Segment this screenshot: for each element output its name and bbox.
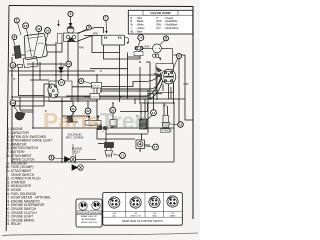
svg-text:P: P <box>157 16 159 20</box>
svg-text:REAR VIEW OF: REAR VIEW OF <box>81 215 98 218</box>
svg-text:R/W: R/W <box>79 47 85 50</box>
svg-text:- Red/Black: - Red/Black <box>164 23 178 27</box>
svg-text:ATTACHMENT: ATTACHMENT <box>82 218 97 221</box>
svg-text:9: 9 <box>88 26 90 30</box>
svg-text:R/W: R/W <box>157 19 163 23</box>
svg-text:24: 24 <box>60 81 64 85</box>
svg-text:1: 1 <box>16 19 18 23</box>
svg-text:R/W: R/W <box>93 33 99 36</box>
svg-text:5: 5 <box>165 37 167 41</box>
svg-text:8: 8 <box>51 156 53 160</box>
svg-text:R/W: R/W <box>145 46 151 49</box>
svg-text:Parts: Parts <box>43 108 101 134</box>
svg-text:N.CLUT: N.CLUT <box>91 96 99 98</box>
svg-text:10: 10 <box>139 36 143 40</box>
svg-text:R: R <box>131 16 133 20</box>
svg-text:19: 19 <box>37 27 41 31</box>
svg-text:- Yellow: - Yellow <box>136 26 145 30</box>
svg-text:- Black: - Black <box>136 19 145 23</box>
svg-text:DRIVE ON: DRIVE ON <box>91 212 100 214</box>
svg-text:B: B <box>131 19 133 23</box>
svg-text:- Red/White: - Red/White <box>164 19 178 23</box>
svg-text:R/B: R/B <box>157 23 162 27</box>
svg-text:Tree: Tree <box>100 108 147 134</box>
svg-text:R/W: R/W <box>84 96 90 99</box>
svg-text:COLOR CODE: COLOR CODE <box>150 11 170 15</box>
svg-text:BL: BL <box>131 29 135 33</box>
svg-text:6: 6 <box>178 54 180 58</box>
svg-text:- Red/Yellow: - Red/Yellow <box>164 26 179 30</box>
svg-text:11: 11 <box>121 154 125 158</box>
svg-text:ORANGE: ORANGE <box>161 130 172 133</box>
svg-text:R/W: R/W <box>184 83 190 86</box>
svg-text:R: R <box>100 70 102 73</box>
svg-text:- Purple: - Purple <box>164 16 174 20</box>
svg-text:MTG. SCREW: MTG. SCREW <box>66 136 84 140</box>
svg-text:- Blue: - Blue <box>136 29 143 33</box>
svg-text:23: 23 <box>11 101 15 105</box>
svg-text:DRIVE OFF: DRIVE OFF <box>78 212 88 214</box>
svg-text:Y: Y <box>131 26 133 30</box>
svg-text:12: 12 <box>11 64 15 68</box>
svg-text:16: 16 <box>46 29 50 33</box>
svg-text:R/Y: R/Y <box>163 105 168 108</box>
svg-text:18: 18 <box>24 24 28 28</box>
svg-text:REAR VIEW OF IGNITION SWITCH: REAR VIEW OF IGNITION SWITCH <box>122 220 163 223</box>
svg-text:A.CLUT: A.CLUT <box>92 84 100 87</box>
svg-text:- Red: - Red <box>136 16 143 20</box>
svg-text:4: 4 <box>14 35 16 39</box>
svg-text:BOLT: BOLT <box>74 150 81 154</box>
svg-text:2: 2 <box>70 12 72 16</box>
svg-text:DRIVE SWITCH: DRIVE SWITCH <box>81 222 97 224</box>
svg-text:- White: - White <box>136 23 145 27</box>
svg-text:13: 13 <box>179 123 183 127</box>
svg-text:3: 3 <box>80 79 82 83</box>
svg-text:24. RELAY: 24. RELAY <box>6 222 22 226</box>
svg-text:17: 17 <box>154 145 158 149</box>
svg-text:R/Y: R/Y <box>157 26 162 30</box>
svg-text:15: 15 <box>67 62 71 66</box>
svg-text:14: 14 <box>152 111 156 115</box>
svg-text:7: 7 <box>105 16 107 20</box>
